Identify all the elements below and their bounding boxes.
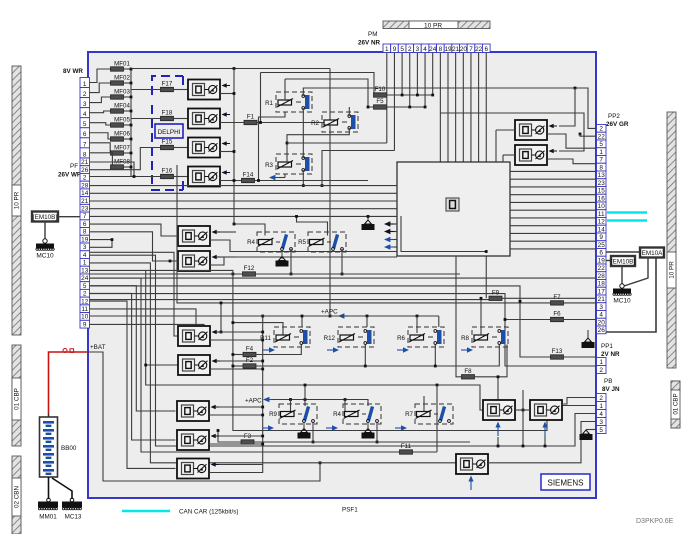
CAN H line xyxy=(607,211,647,214)
svg-text:8: 8 xyxy=(599,164,603,171)
svg-text:BB00: BB00 xyxy=(61,445,77,452)
stub R3 arrow xyxy=(279,177,285,179)
junction xyxy=(522,445,525,448)
svg-text:3: 3 xyxy=(83,101,87,108)
wire injector tr1 out to pin 5 xyxy=(547,134,596,148)
fuse MF03 xyxy=(111,89,131,100)
svg-text:4: 4 xyxy=(423,46,427,53)
wire F18 to injector xyxy=(174,118,189,120)
wire block out 2 xyxy=(510,178,596,180)
junction xyxy=(522,409,525,412)
svg-text:MC13: MC13 xyxy=(65,514,82,521)
svg-text:13: 13 xyxy=(81,267,89,274)
wire MF bus to F18 xyxy=(131,118,161,120)
svg-text:10 PR: 10 PR xyxy=(424,23,442,30)
svg-text:SIEMENS: SIEMENS xyxy=(547,479,583,488)
junction xyxy=(519,300,522,303)
svg-text:R8: R8 xyxy=(461,335,469,342)
ground below R4 row B xyxy=(276,251,289,267)
wire EM10A to ground xyxy=(624,258,648,287)
wire inside block xyxy=(401,216,486,252)
wire R8 contact to F8 xyxy=(475,345,508,377)
wire to right mid ground xyxy=(587,330,589,338)
arrow below R12 xyxy=(327,347,339,353)
wire R9 blade top xyxy=(304,385,306,406)
fuse F16 xyxy=(161,168,174,179)
svg-text:F7: F7 xyxy=(553,294,561,301)
wire EM10B right to ground xyxy=(621,266,623,284)
svg-text:3: 3 xyxy=(416,46,420,53)
wire injector tr1 left down xyxy=(495,130,497,162)
svg-text:5: 5 xyxy=(599,141,603,148)
left connector bar 02 CBN xyxy=(12,456,21,534)
fuse MF04 xyxy=(111,103,131,114)
wire injector2 to F1 xyxy=(220,122,244,124)
svg-text:F9: F9 xyxy=(492,289,500,296)
wire battery to MC13 xyxy=(52,478,72,499)
svg-text:24: 24 xyxy=(81,275,89,282)
wire pin 3 to pin 19 xyxy=(90,240,113,248)
main processor block xyxy=(397,162,510,256)
wire bottom injector out to PB pin 3 xyxy=(488,422,596,463)
fuse F9 xyxy=(489,289,502,300)
arrow into block 2 xyxy=(384,229,395,235)
svg-text:26: 26 xyxy=(81,167,89,174)
bus wire 3 xyxy=(90,200,398,202)
wire R12 contact down xyxy=(364,345,366,367)
svg-text:20: 20 xyxy=(460,46,468,53)
svg-text:MF06: MF06 xyxy=(114,131,130,138)
battery terminal marks xyxy=(63,349,74,353)
fuse MF01 xyxy=(111,61,131,72)
wire MF01 bus right xyxy=(131,68,330,70)
junction xyxy=(480,297,483,300)
processor icon xyxy=(446,198,459,211)
wire R7 contact vertical xyxy=(436,385,438,452)
svg-text:F11: F11 xyxy=(401,443,412,450)
wire MF04 out xyxy=(124,110,132,112)
arrow below R8 xyxy=(461,347,473,353)
wire pin 19 stub xyxy=(90,239,113,241)
svg-text:F1: F1 xyxy=(247,114,255,121)
junction xyxy=(233,67,236,70)
svg-text:10 PR: 10 PR xyxy=(669,261,676,279)
wire 446 line to br injector 2 arrow xyxy=(544,436,546,446)
junction xyxy=(130,166,133,169)
svg-text:2: 2 xyxy=(83,91,87,98)
ground MC10 left xyxy=(36,239,54,260)
wire PM drop 14 through block xyxy=(485,53,487,299)
svg-text:21: 21 xyxy=(81,198,89,205)
wire block out 6 xyxy=(510,209,596,211)
wire pin6 to rowB1 xyxy=(90,224,179,236)
svg-text:F15: F15 xyxy=(162,139,173,146)
wire R9 coil top xyxy=(290,400,292,412)
injector bottom right 2 xyxy=(530,400,562,436)
svg-text:01 CBP: 01 CBP xyxy=(673,393,680,414)
wire to F12 xyxy=(90,273,243,275)
svg-text:4: 4 xyxy=(599,312,603,319)
top connector bar 10 PR xyxy=(383,21,490,30)
svg-text:6: 6 xyxy=(83,131,87,138)
svg-text:26V GR: 26V GR xyxy=(606,121,629,128)
injector 2 xyxy=(188,109,230,129)
wire PM drop 8 xyxy=(439,53,441,163)
junction xyxy=(130,68,133,71)
junction xyxy=(261,406,264,409)
svg-text:19: 19 xyxy=(444,46,452,53)
svg-text:5: 5 xyxy=(83,283,87,290)
svg-text:D3PKP0.6E: D3PKP0.6E xyxy=(636,518,674,525)
injector 3 xyxy=(188,138,230,158)
stub arrow to block xyxy=(394,246,397,248)
junction xyxy=(408,106,411,109)
wire to rowD injector 2 xyxy=(90,293,176,440)
wire rowB1 arrow feed xyxy=(220,231,236,233)
descender to rowC1 arrow line xyxy=(220,303,222,332)
svg-text:CAN CAR (125kbit/s): CAN CAR (125kbit/s) xyxy=(179,509,239,516)
wire MF08 out xyxy=(124,166,132,168)
junction xyxy=(130,96,133,99)
wire rowC1 arrow feed xyxy=(220,331,263,333)
ground MC13 xyxy=(62,498,82,520)
junction xyxy=(376,441,379,444)
arrow +APC row D xyxy=(263,397,273,403)
wire PM drop 9 xyxy=(447,53,449,163)
svg-text:[EM10A]: [EM10A] xyxy=(640,250,664,257)
svg-text:+BAT: +BAT xyxy=(90,344,106,351)
svg-text:1: 1 xyxy=(599,359,603,366)
junction xyxy=(232,321,235,324)
svg-text:MC10: MC10 xyxy=(36,253,54,260)
wire pin2 to MF02 xyxy=(90,83,111,93)
svg-text:02 CBN: 02 CBN xyxy=(14,486,21,509)
wire elbow to R11 coil xyxy=(233,323,283,335)
wire R7 coil top xyxy=(423,396,425,412)
relay R1 xyxy=(265,92,312,112)
wire pin6 to EM10A xyxy=(606,251,640,253)
wire block bottom to F8 xyxy=(456,256,462,377)
svg-text:4: 4 xyxy=(599,411,603,418)
junction xyxy=(304,398,307,401)
wire y79 to F5 xyxy=(285,79,374,107)
wire R1 coil top xyxy=(284,79,286,100)
arrow R3 coil out xyxy=(269,175,279,181)
svg-text:3: 3 xyxy=(599,419,603,426)
injector row-D 2 xyxy=(177,430,219,450)
svg-text:F10: F10 xyxy=(375,86,386,93)
svg-text:6: 6 xyxy=(599,250,603,257)
staircase wire to F11 xyxy=(90,278,400,452)
junction xyxy=(232,273,235,276)
svg-text:R6: R6 xyxy=(397,335,405,342)
junction xyxy=(304,384,307,387)
wire to F6 xyxy=(505,319,551,321)
injector 4 xyxy=(188,167,230,187)
wire to R6 coil top xyxy=(416,316,418,333)
svg-text:R4: R4 xyxy=(247,239,255,246)
junction xyxy=(485,250,488,253)
junction xyxy=(574,87,577,90)
wire to F2 xyxy=(233,365,243,367)
svg-text:9: 9 xyxy=(393,46,397,53)
wire EM10B to pin 7 xyxy=(58,216,80,218)
svg-text:4: 4 xyxy=(83,111,87,118)
wire injector3 out xyxy=(220,151,234,153)
junction xyxy=(261,368,264,371)
wire MF05 out xyxy=(124,124,132,126)
svg-text:1: 1 xyxy=(599,149,603,156)
wire MF03 out xyxy=(124,96,132,98)
long bus to F9 xyxy=(90,299,490,301)
wire block out 9 xyxy=(510,232,596,234)
fuse F13 xyxy=(551,348,564,359)
svg-text:+APC: +APC xyxy=(321,309,338,316)
svg-text:R12: R12 xyxy=(324,335,336,342)
wire PM drop 5 xyxy=(416,53,418,96)
fuse F4 xyxy=(243,346,256,357)
arrow +APC row C xyxy=(338,313,348,319)
connector PB pins xyxy=(597,394,607,434)
svg-text:24: 24 xyxy=(429,46,437,53)
svg-text:F5: F5 xyxy=(376,98,384,105)
svg-text:7: 7 xyxy=(599,157,603,164)
wire pin 9 to rowC1 arrow line xyxy=(90,324,205,332)
stub injector tr2 left xyxy=(503,154,515,156)
svg-text:18: 18 xyxy=(598,281,606,288)
junction xyxy=(261,443,264,446)
svg-text:[EM10B]: [EM10B] xyxy=(33,214,57,221)
svg-text:12: 12 xyxy=(598,219,606,226)
junction xyxy=(367,106,370,109)
wire F5 out xyxy=(387,106,426,108)
splice EM10A right xyxy=(640,248,664,258)
relay R4 row B xyxy=(247,232,295,252)
svg-text:21: 21 xyxy=(452,46,460,53)
connector PP1 pins xyxy=(597,358,607,374)
relay R9 xyxy=(269,404,317,424)
wire PM drop 6 xyxy=(424,53,426,108)
junction xyxy=(366,315,369,318)
wire PM drop 7 xyxy=(432,53,434,96)
junction xyxy=(261,339,264,342)
junction xyxy=(261,360,264,363)
junction xyxy=(233,92,236,95)
svg-text:2: 2 xyxy=(408,46,412,53)
wire rowC2 out xyxy=(210,368,263,370)
svg-text:9: 9 xyxy=(599,234,603,241)
ground below R9 xyxy=(298,423,311,439)
wire R4B contact down xyxy=(290,249,292,274)
bus wire 2 xyxy=(90,192,398,194)
svg-text:10: 10 xyxy=(598,203,606,210)
svg-text:8: 8 xyxy=(83,229,87,236)
long bus to F13 xyxy=(90,286,551,357)
fuse F2 xyxy=(243,357,256,368)
svg-text:MF01: MF01 xyxy=(114,61,130,68)
svg-text:1: 1 xyxy=(83,260,87,267)
connector PP2 pins xyxy=(597,125,607,335)
wire F7 to pin xyxy=(564,302,597,304)
svg-text:11: 11 xyxy=(598,211,605,218)
wire PM drop 10 xyxy=(455,53,457,163)
svg-text:22: 22 xyxy=(475,46,483,53)
wire R2 contact down xyxy=(287,128,349,143)
junction xyxy=(302,184,305,187)
wire block out 5 xyxy=(510,201,596,203)
wire rowB2 out to block xyxy=(210,257,397,265)
svg-text:20: 20 xyxy=(598,319,606,326)
wire F16 to injector xyxy=(174,176,189,178)
wire MF06 out xyxy=(124,138,132,140)
svg-text:2: 2 xyxy=(83,291,87,298)
injector row-B 1 xyxy=(178,226,220,246)
wire pin3 to MF03 xyxy=(90,97,111,103)
junction xyxy=(233,179,236,182)
junction xyxy=(431,94,434,97)
junction xyxy=(329,315,332,318)
wire to mid ground xyxy=(367,216,369,220)
svg-text:7: 7 xyxy=(83,213,87,220)
svg-text:R2: R2 xyxy=(311,120,319,127)
wire R8 coil top xyxy=(480,298,482,335)
wire y72 to F10 xyxy=(261,73,375,96)
wire F6 to pin xyxy=(564,319,597,321)
staircase wire to PB pin 4 xyxy=(90,255,597,446)
junction xyxy=(233,223,236,226)
wire R5 contact down xyxy=(341,249,343,274)
junction xyxy=(232,365,235,368)
wire R3 contact to bus xyxy=(302,170,304,186)
svg-text:01 CBP: 01 CBP xyxy=(14,388,21,410)
wire between bottom-right injectors xyxy=(515,409,530,411)
junction xyxy=(130,138,133,141)
wire F1 out to R2 xyxy=(257,122,324,124)
wire pin 21 join F16 line xyxy=(90,162,135,177)
junction xyxy=(544,445,547,448)
injector top-right 2 xyxy=(515,145,557,165)
main ECU box PSF1 xyxy=(88,52,596,498)
junction xyxy=(436,384,439,387)
wire block out 8 xyxy=(510,225,596,227)
svg-text:R7: R7 xyxy=(405,411,413,418)
svg-text:1: 1 xyxy=(599,403,603,410)
svg-text:MM01: MM01 xyxy=(39,514,57,521)
arrow below R11 xyxy=(263,347,275,353)
wire to rowD injector 3 xyxy=(90,301,176,468)
svg-text:2: 2 xyxy=(83,175,87,182)
svg-text:14: 14 xyxy=(81,190,89,197)
wire rowC2 arrow feed xyxy=(220,360,263,362)
wire +BAT to bottom bus xyxy=(88,352,320,481)
injector bottom centre xyxy=(456,454,488,490)
injector row-B 2 xyxy=(178,251,220,271)
svg-text:19: 19 xyxy=(598,257,606,264)
wire pin4 to MF04 xyxy=(90,111,111,113)
junction xyxy=(133,175,136,178)
right connector bar 10 PR xyxy=(667,112,676,368)
junction xyxy=(261,315,264,318)
svg-text:21: 21 xyxy=(598,296,606,303)
svg-text:22: 22 xyxy=(598,133,606,140)
svg-text:F17: F17 xyxy=(162,81,173,88)
wire block out 3 xyxy=(510,186,596,188)
fuse F7 xyxy=(551,294,564,305)
bus wire 1 xyxy=(90,185,398,187)
wire PM drop 12 xyxy=(470,53,472,163)
arrow below R6 xyxy=(397,347,409,353)
wire block out 7 xyxy=(510,217,596,219)
DELPHI fuse box outline xyxy=(152,76,183,190)
svg-text:1: 1 xyxy=(385,46,389,53)
junction xyxy=(301,315,304,318)
fuse F1 xyxy=(244,114,257,125)
svg-text:22: 22 xyxy=(598,265,606,272)
injector row-C 2 xyxy=(178,355,220,375)
arrow below R7 xyxy=(395,425,407,431)
junction xyxy=(434,365,437,368)
junction xyxy=(424,106,427,109)
wire pin19 to EM10B xyxy=(606,260,611,262)
svg-text:2V NR: 2V NR xyxy=(601,351,620,358)
relay R3 xyxy=(265,154,312,174)
svg-text:8: 8 xyxy=(439,46,443,53)
wire pin 4 to rowC injector 1 xyxy=(90,252,179,336)
wire bus up to y150 xyxy=(322,151,395,186)
svg-text:4: 4 xyxy=(83,252,87,259)
wire R4D coil top xyxy=(344,400,346,412)
svg-text:15: 15 xyxy=(598,188,606,195)
wire PM drop 4 xyxy=(409,53,411,108)
svg-text:8V WR: 8V WR xyxy=(63,68,83,75)
svg-text:5: 5 xyxy=(83,121,87,128)
connector PF pins xyxy=(80,158,90,328)
wire to R6 bar top xyxy=(438,316,440,327)
svg-text:9: 9 xyxy=(83,321,87,328)
wire pin1 to MF01 xyxy=(90,69,111,83)
svg-text:21: 21 xyxy=(81,159,89,166)
svg-text:12: 12 xyxy=(81,298,89,305)
fuse F3 xyxy=(241,433,254,444)
junction xyxy=(144,364,147,367)
wire F12 out xyxy=(256,273,461,275)
wire EM10A to pin 26 xyxy=(606,258,656,333)
battery feed red wire xyxy=(49,352,89,417)
relay R5 row B xyxy=(298,232,346,252)
svg-text:2: 2 xyxy=(599,126,603,133)
svg-text:PP2: PP2 xyxy=(608,113,620,120)
wire block out 1 xyxy=(510,170,596,172)
svg-text:3: 3 xyxy=(599,304,603,311)
wire +APC rowC bus xyxy=(90,315,439,317)
junction xyxy=(579,133,582,136)
right connector bar 01 CBP xyxy=(671,381,680,428)
splice EM10B left xyxy=(32,212,58,222)
wire ground to PB pin 5 xyxy=(586,429,596,431)
relay R7 xyxy=(405,404,453,424)
junction xyxy=(286,142,289,145)
junction xyxy=(289,398,292,401)
wire rowD3 arrow feed xyxy=(219,464,263,466)
junction xyxy=(130,82,133,85)
junction xyxy=(319,461,322,464)
svg-text:6: 6 xyxy=(484,46,488,53)
svg-text:23: 23 xyxy=(81,206,89,213)
junction xyxy=(295,215,298,218)
wire injector tr2 left down xyxy=(502,155,504,162)
fuse F5 xyxy=(374,98,387,109)
ground right mid xyxy=(582,338,595,348)
